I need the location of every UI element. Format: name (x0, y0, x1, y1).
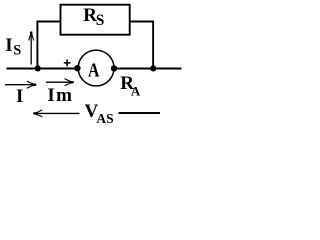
svg-text:Im: Im (47, 85, 73, 106)
arrow I right head (27, 81, 36, 88)
svg-text:A: A (131, 84, 141, 99)
arrow Im right head (65, 79, 74, 86)
svg-text:A: A (88, 60, 100, 82)
node ammeter left terminal (74, 65, 80, 71)
node right branch (150, 65, 156, 71)
wire top-left from box to left branch (37, 22, 60, 69)
wire main left (7, 68, 79, 70)
arrow V_AS left head (33, 110, 42, 117)
svg-text:S: S (96, 12, 105, 29)
arrow V_AS left shaft (35, 112, 80, 114)
svg-text:I: I (16, 86, 23, 107)
node ammeter right terminal (111, 65, 117, 71)
svg-text:I: I (5, 35, 12, 56)
svg-text:AS: AS (96, 111, 113, 126)
wire main right (114, 68, 181, 70)
resistor R_S box (61, 5, 130, 35)
wire top-right from box to right branch (130, 22, 153, 69)
node junction left branch (35, 65, 41, 71)
plus polarity mark (64, 60, 71, 67)
svg-text:S: S (13, 43, 21, 59)
wire V_AS right segment (119, 112, 161, 114)
arrow Im right shaft (46, 81, 71, 83)
arrow I right shaft (5, 84, 35, 86)
ammeter U1 meter circle (78, 50, 114, 86)
arrow I_S up head (29, 32, 34, 41)
arrow I_S up shaft (30, 33, 32, 65)
